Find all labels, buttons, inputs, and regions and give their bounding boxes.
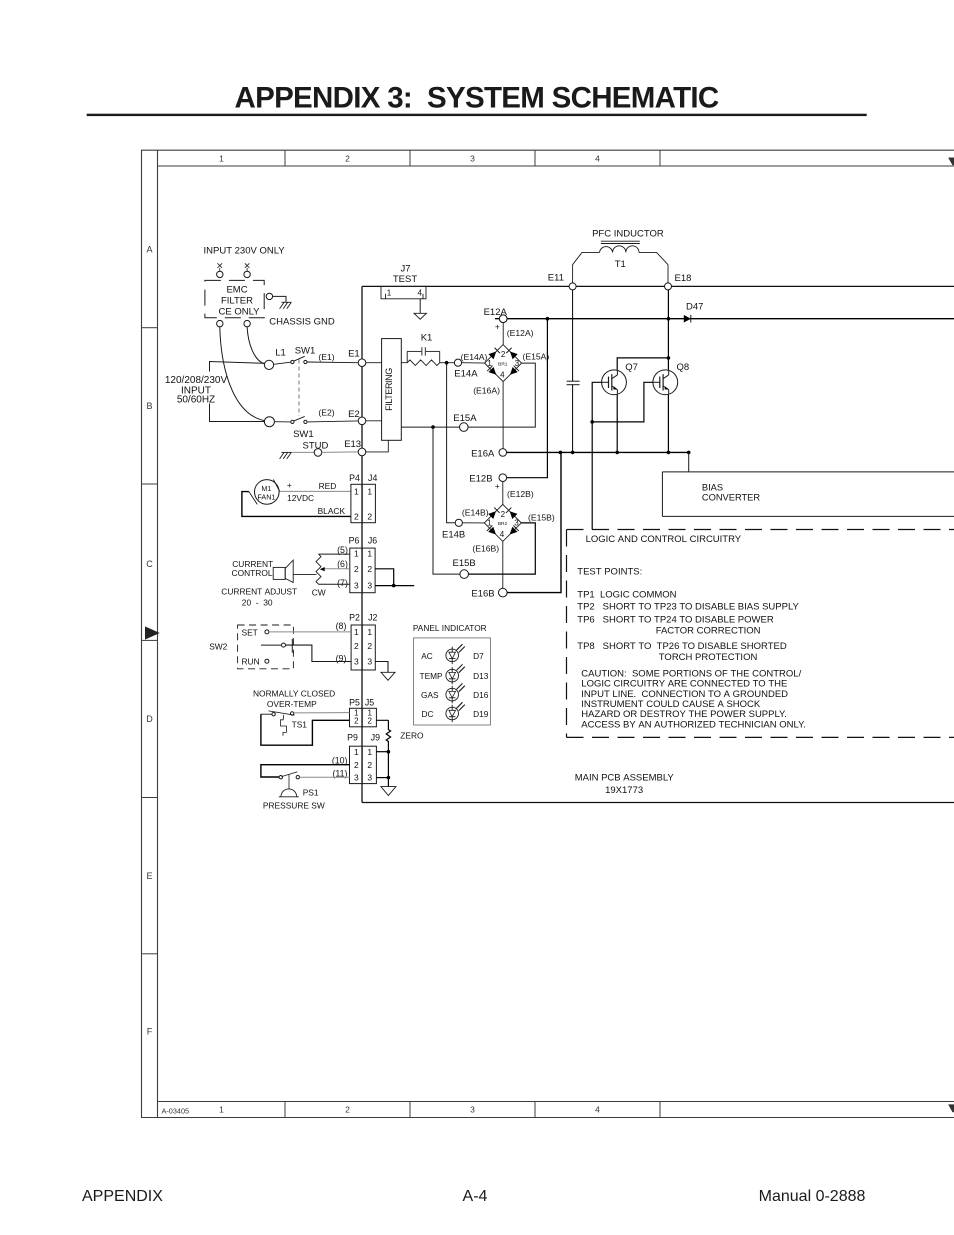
svg-text:19X1773: 19X1773 <box>605 785 643 796</box>
svg-text:OVER-TEMP: OVER-TEMP <box>267 699 317 709</box>
svg-text:(E15B): (E15B) <box>528 512 555 522</box>
wire fan red to P4-1 <box>280 490 351 492</box>
svg-text:3: 3 <box>367 580 372 590</box>
wire E15A branch down to E15B <box>433 427 460 574</box>
svg-text:BLACK: BLACK <box>318 506 346 516</box>
wire J6-3 stub <box>375 585 414 587</box>
wire BR1 pin3 to E15A <box>468 363 535 427</box>
bottom right zone marker <box>949 1105 954 1112</box>
resistor ZERO <box>376 720 390 786</box>
svg-text:2: 2 <box>501 350 506 359</box>
terminal E13 <box>358 448 366 456</box>
LED D7 AC <box>446 644 465 664</box>
wire pot bottom to P6-3 <box>319 583 350 585</box>
svg-text:4: 4 <box>500 370 505 379</box>
wire J6-2 jumper to J6-3 <box>375 569 394 586</box>
svg-text:1: 1 <box>367 747 372 757</box>
svg-text:P9: P9 <box>347 733 358 743</box>
svg-text:TP8 SHORT TO TP26 TO DISABL: TP8 SHORT TO TP26 TO DISABLE SHORTED <box>577 641 787 652</box>
wire knob to pot <box>293 574 316 576</box>
bias converter block <box>662 472 954 517</box>
svg-text:TP6 SHORT TO TP24 TO DISABLE: TP6 SHORT TO TP24 TO DISABLE POWER <box>577 615 774 626</box>
svg-text:2: 2 <box>501 510 506 519</box>
svg-text:J5: J5 <box>365 698 374 708</box>
LED D13 TEMP <box>446 664 465 684</box>
svg-text:ACCESS BY AN AUTHORIZED TECHNI: ACCESS BY AN AUTHORIZED TECHNICIAN ONLY. <box>581 719 806 730</box>
svg-text:E12B: E12B <box>469 474 492 485</box>
SW2 common wiper <box>261 644 281 646</box>
svg-text:4: 4 <box>417 289 422 298</box>
junction Q7 collector <box>667 356 671 360</box>
svg-text:BR2: BR2 <box>498 521 508 527</box>
svg-text:J6: J6 <box>368 536 377 546</box>
chassis ground symbol (stud) <box>282 451 292 453</box>
terminal E16A <box>499 449 507 457</box>
wire E18 down to Q8 collector <box>667 290 669 370</box>
svg-text:TS1: TS1 <box>292 720 308 730</box>
wire SET to P2-1 <box>269 631 351 633</box>
svg-text:2: 2 <box>354 641 359 651</box>
input terminal X marks <box>218 263 223 268</box>
terminal E18 <box>665 283 672 290</box>
svg-text:D: D <box>146 714 153 724</box>
motor M1 FAN1 <box>254 480 279 505</box>
wire K1 to E14A <box>440 362 455 364</box>
wire stud to E13 <box>322 451 358 454</box>
svg-text:E2: E2 <box>348 409 360 420</box>
svg-text:SW1: SW1 <box>295 346 316 357</box>
row letter ticks <box>142 327 158 329</box>
svg-text:(E16A): (E16A) <box>473 385 500 395</box>
svg-text:(8): (8) <box>336 621 347 631</box>
svg-text:E18: E18 <box>675 273 692 284</box>
wire Q8 gate branch <box>592 382 653 422</box>
svg-text:LOGIC AND CONTROL CIRCUITRY: LOGIC AND CONTROL CIRCUITRY <box>586 534 742 545</box>
junction rail/E12B riser <box>546 317 550 321</box>
svg-text:D7: D7 <box>473 651 484 661</box>
junction bus/E16B riser <box>559 451 563 455</box>
wire TS1 to P5-1 <box>294 712 350 714</box>
wire pigtail to chassis gnd <box>273 296 286 302</box>
svg-text:1: 1 <box>354 627 359 637</box>
inductor T1 <box>601 240 640 242</box>
svg-text:BR1: BR1 <box>498 361 508 367</box>
svg-text:P5: P5 <box>349 698 360 708</box>
svg-text:TP1 LOGIC COMMON: TP1 LOGIC COMMON <box>577 589 676 600</box>
svg-text:FILTERING: FILTERING <box>384 368 394 411</box>
svg-text:(E12B): (E12B) <box>507 489 534 499</box>
chassis ground symbol (EMC) <box>282 301 292 303</box>
svg-text:E14A: E14A <box>454 368 478 379</box>
svg-text:3: 3 <box>354 580 359 590</box>
pressure switch PS1 <box>279 776 282 779</box>
LED D16 GAS <box>446 683 465 703</box>
junction bus/capacitor <box>571 451 575 455</box>
svg-text:BIAS: BIAS <box>702 483 723 493</box>
svg-text:2: 2 <box>367 760 372 770</box>
ruler column ticks <box>284 150 286 166</box>
junction rail/E18 <box>667 317 671 321</box>
logic and control circuitry box <box>567 530 954 738</box>
EMC filter box <box>205 280 264 317</box>
svg-text:J2: J2 <box>368 613 377 623</box>
capacitor on E11 branch <box>572 290 574 381</box>
terminal E2 <box>358 417 366 425</box>
wire SW2 common to P2-3 <box>286 645 352 661</box>
svg-text:CONTROL: CONTROL <box>232 568 273 578</box>
potentiometer current adjust <box>316 554 321 584</box>
svg-text:TEST POINTS:: TEST POINTS: <box>577 567 642 578</box>
wire E1 to filtering <box>366 362 382 364</box>
svg-text:A: A <box>146 245 152 255</box>
svg-text:2: 2 <box>345 1105 350 1115</box>
svg-text:FAN1: FAN1 <box>257 493 275 502</box>
wire BR2 pin3 to E15B <box>469 523 536 574</box>
svg-text:PFC INDUCTOR: PFC INDUCTOR <box>592 229 664 240</box>
svg-text:A-4: A-4 <box>463 1188 488 1205</box>
svg-text:D16: D16 <box>473 690 489 700</box>
svg-text:NORMALLY CLOSED: NORMALLY CLOSED <box>253 689 335 699</box>
svg-text:2: 2 <box>354 760 359 770</box>
svg-text:4: 4 <box>595 1105 600 1115</box>
svg-text:1: 1 <box>367 549 372 559</box>
svg-text:1: 1 <box>354 486 359 496</box>
terminal line2 <box>264 417 274 427</box>
svg-text:+: + <box>287 480 292 490</box>
svg-text:E16A: E16A <box>471 448 495 459</box>
svg-text:1: 1 <box>367 486 372 496</box>
wire Q7 gate to control <box>592 382 601 529</box>
svg-text:APPENDIX: APPENDIX <box>82 1188 163 1205</box>
terminal E16B <box>499 588 508 597</box>
wire E2 to filtering <box>366 420 382 422</box>
input terminal circles 230V <box>217 271 223 277</box>
svg-text:CW: CW <box>312 587 326 597</box>
svg-text:FILTER: FILTER <box>221 296 253 307</box>
switch SW2 box <box>238 625 294 669</box>
title underline <box>87 114 867 116</box>
svg-text:(6): (6) <box>337 559 348 569</box>
svg-text:3: 3 <box>515 359 520 368</box>
svg-text:20 - 30: 20 - 30 <box>242 598 273 608</box>
svg-text:CE ONLY: CE ONLY <box>218 307 260 318</box>
svg-text:P6: P6 <box>349 536 360 546</box>
transistor Q7 (IGBT) <box>602 370 627 395</box>
svg-text:+: + <box>495 481 500 491</box>
svg-text:K1: K1 <box>421 333 433 344</box>
svg-text:D47: D47 <box>686 302 703 313</box>
riser E12A to E12B <box>507 319 547 478</box>
wire filtering to E15A <box>401 426 459 428</box>
junction bus/Q7 emitter <box>615 451 619 455</box>
svg-text:P4: P4 <box>349 473 360 483</box>
wire PS1 to P9-3 <box>300 776 350 778</box>
svg-text:EMC: EMC <box>226 285 247 296</box>
svg-text:D13: D13 <box>473 671 489 681</box>
svg-text:SET: SET <box>242 627 258 637</box>
svg-text:(E14A): (E14A) <box>461 352 488 362</box>
svg-text:(E1): (E1) <box>318 352 334 362</box>
junction bus/bias feed <box>687 451 691 455</box>
junction J6 jumper <box>392 584 396 588</box>
logic ground symbol J2 <box>381 672 395 680</box>
svg-text:CONVERTER: CONVERTER <box>702 492 760 502</box>
svg-text:3: 3 <box>470 153 475 163</box>
svg-text:D19: D19 <box>473 709 489 719</box>
svg-text:Manual 0-2888: Manual 0-2888 <box>759 1188 866 1205</box>
svg-text:F: F <box>147 1026 153 1036</box>
svg-text:1: 1 <box>219 1105 224 1115</box>
svg-text:1: 1 <box>354 747 359 757</box>
outer border frame <box>142 150 954 1117</box>
svg-text:Q7: Q7 <box>625 362 638 373</box>
wire K1 node down to E14B <box>447 363 456 523</box>
svg-text:E13: E13 <box>344 439 361 450</box>
junction gate node <box>590 420 594 424</box>
junction bus/Q8 emitter <box>667 451 671 455</box>
wire J2-3 to gnd <box>375 662 388 673</box>
logic ground symbol J7 <box>414 313 426 319</box>
svg-text:(E14B): (E14B) <box>462 507 489 517</box>
svg-text:FACTOR CORRECTION: FACTOR CORRECTION <box>656 625 761 636</box>
wire E14B to BR2 pin1 <box>462 522 484 524</box>
svg-text:AC: AC <box>421 651 433 661</box>
svg-text:50/60HZ: 50/60HZ <box>177 394 215 405</box>
wire fan black loop <box>242 492 351 517</box>
svg-text:CURRENT ADJUST: CURRENT ADJUST <box>221 586 297 596</box>
svg-text:2: 2 <box>367 716 372 725</box>
resistor K1 coil <box>401 360 439 366</box>
svg-text:(E16B): (E16B) <box>472 544 499 554</box>
wire SW1 lower to E2 <box>307 421 358 422</box>
wire arc EMC right output to L1 <box>247 327 264 364</box>
svg-text:DC: DC <box>422 709 434 719</box>
wire pot top to P6-1 <box>319 553 350 555</box>
left margin zone arrow <box>146 627 159 639</box>
svg-text:APPENDIX 3: SYSTEM SCHEMATIC: APPENDIX 3: SYSTEM SCHEMATIC <box>235 82 719 115</box>
wire T1 right lead to E18 <box>639 252 668 283</box>
LED D19 DC <box>446 702 465 722</box>
svg-text:2: 2 <box>345 153 350 163</box>
svg-text:(E2): (E2) <box>318 408 334 418</box>
wire bus to bias converter <box>688 452 690 472</box>
svg-text:1: 1 <box>219 153 224 163</box>
wire E12B to BR2 pin2 <box>502 482 504 505</box>
svg-text:P2: P2 <box>349 613 360 623</box>
svg-text:E11: E11 <box>548 272 564 283</box>
main PCB assembly boundary <box>362 286 954 802</box>
wire pot wiper to P6-2 <box>324 568 350 570</box>
wire TS1 loop to P5-2 <box>261 713 272 715</box>
svg-text:Q8: Q8 <box>677 362 690 373</box>
input source bracket <box>210 362 265 422</box>
svg-text:E: E <box>146 871 152 881</box>
transistor Q8 (IGBT) <box>653 370 678 395</box>
svg-text:TEST: TEST <box>393 274 417 285</box>
EMC filter output circles <box>217 320 223 326</box>
svg-text:RUN: RUN <box>242 656 260 666</box>
top right zone marker <box>949 158 954 165</box>
wire J9-3 to gnd rail <box>376 777 388 779</box>
terminal E12A <box>499 315 507 323</box>
svg-text:1: 1 <box>387 289 392 298</box>
terminal E14A <box>454 359 461 366</box>
svg-text:RED: RED <box>319 481 337 491</box>
wire J7 pin4 to gnd <box>419 299 421 314</box>
wire BR1 pin4 to E16A <box>502 382 504 449</box>
svg-text:2: 2 <box>367 512 372 522</box>
bridge rectifier BR2 <box>484 504 521 541</box>
svg-text:C: C <box>146 559 153 569</box>
svg-text:TP2 SHORT TO TP23 TO DISABLE: TP2 SHORT TO TP23 TO DISABLE BIAS SUPPLY <box>577 602 799 613</box>
wire E12A to BR1 pin2 <box>502 323 504 345</box>
svg-text:B: B <box>146 401 152 411</box>
svg-text:PS1: PS1 <box>303 787 319 797</box>
svg-text:J4: J4 <box>368 473 377 483</box>
wire T1 left lead to E11 <box>573 252 600 283</box>
svg-text:1: 1 <box>367 627 372 637</box>
svg-text:T1: T1 <box>615 259 626 270</box>
svg-text:L1: L1 <box>275 348 286 359</box>
svg-text:TEMP: TEMP <box>420 671 444 681</box>
svg-text:TORCH PROTECTION: TORCH PROTECTION <box>659 652 758 663</box>
wire gnd to stud <box>292 451 315 453</box>
svg-text:+: + <box>495 322 500 332</box>
svg-text:(E12A): (E12A) <box>507 328 534 338</box>
svg-text:E15B: E15B <box>453 558 476 569</box>
svg-text:1: 1 <box>487 519 492 528</box>
svg-text:4: 4 <box>500 530 505 539</box>
svg-text:3: 3 <box>514 519 519 528</box>
wire Q8 emitter to bus <box>667 395 669 453</box>
thermal switch TS1 <box>272 713 275 716</box>
terminal E14B <box>455 519 462 526</box>
SW1 mechanical link <box>298 360 300 417</box>
svg-text:CHASSIS GND: CHASSIS GND <box>269 316 335 327</box>
svg-text:INPUT 230V ONLY: INPUT 230V ONLY <box>204 246 286 257</box>
logic ground symbol J9 <box>381 787 396 796</box>
svg-text:GAS: GAS <box>421 690 439 700</box>
wire E16B riser to bus <box>507 452 561 592</box>
wire E14A to BR1 pin1 <box>462 362 485 364</box>
svg-text:SW1: SW1 <box>293 429 314 440</box>
wire Q7 collector <box>617 358 668 370</box>
chassis pigtail terminal <box>266 293 272 299</box>
svg-text:SW2: SW2 <box>209 642 227 652</box>
wire arc EMC left output to line2 <box>220 327 264 421</box>
wire J9-1 to gnd rail <box>376 751 388 753</box>
switch SW1 lower pole <box>274 421 290 423</box>
svg-text:E14B: E14B <box>442 530 465 541</box>
svg-text:12VDC: 12VDC <box>287 493 314 503</box>
terminal E12B <box>499 474 507 482</box>
svg-text:E1: E1 <box>348 349 360 360</box>
svg-text:2: 2 <box>367 641 372 651</box>
svg-text:2: 2 <box>354 564 359 574</box>
svg-text:J7: J7 <box>400 263 410 274</box>
svg-text:3: 3 <box>367 657 372 667</box>
svg-text:(E15A): (E15A) <box>523 352 550 362</box>
terminal L1 <box>264 360 273 369</box>
svg-text:(7): (7) <box>337 578 348 588</box>
svg-text:MAIN PCB ASSEMBLY: MAIN PCB ASSEMBLY <box>575 772 675 783</box>
current control knob icon <box>273 567 285 579</box>
wire Q7 emitter to bus <box>616 395 618 453</box>
svg-text:ZERO: ZERO <box>400 731 424 741</box>
pressure switch PS1 loop to P9-2 <box>261 765 350 777</box>
bridge rectifier BR1 <box>485 345 522 382</box>
wire SW1 upper to E1 <box>307 361 358 364</box>
svg-text:E16B: E16B <box>471 589 494 600</box>
wire BR2 pin4 to E16B <box>502 541 504 588</box>
terminal E1 <box>358 359 366 367</box>
terminal E12A circle overlay <box>499 315 507 323</box>
svg-text:J9: J9 <box>371 733 380 743</box>
negative bus E16A <box>507 451 689 453</box>
svg-text:3: 3 <box>470 1105 475 1115</box>
svg-text:4: 4 <box>595 153 600 163</box>
junction E15A branch <box>431 425 435 429</box>
wire E13 to filtering <box>366 440 389 452</box>
terminal E11 <box>569 283 576 290</box>
filtering block <box>382 339 402 441</box>
inner border frame <box>158 150 954 1117</box>
svg-text:2: 2 <box>354 512 359 522</box>
stud terminal <box>314 449 322 457</box>
svg-text:A-03405: A-03405 <box>162 1106 190 1115</box>
junction node K1/E14B <box>445 361 449 365</box>
svg-text:2: 2 <box>367 564 372 574</box>
svg-text:3: 3 <box>354 657 359 667</box>
positive rail from E12A <box>495 318 954 320</box>
svg-text:2: 2 <box>354 716 359 725</box>
svg-text:PANEL INDICATOR: PANEL INDICATOR <box>413 623 487 633</box>
svg-text:PRESSURE SW: PRESSURE SW <box>263 800 325 810</box>
svg-text:1: 1 <box>487 359 492 368</box>
svg-text:3: 3 <box>367 773 372 783</box>
svg-text:1: 1 <box>354 549 359 559</box>
svg-text:3: 3 <box>354 773 359 783</box>
